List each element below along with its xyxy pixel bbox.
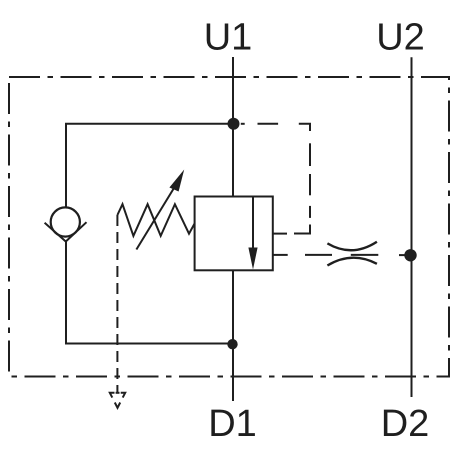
svg-text:U2: U2 bbox=[376, 17, 425, 59]
svg-text:D1: D1 bbox=[208, 403, 257, 445]
svg-text:U1: U1 bbox=[204, 17, 253, 59]
svg-text:D2: D2 bbox=[381, 403, 430, 445]
